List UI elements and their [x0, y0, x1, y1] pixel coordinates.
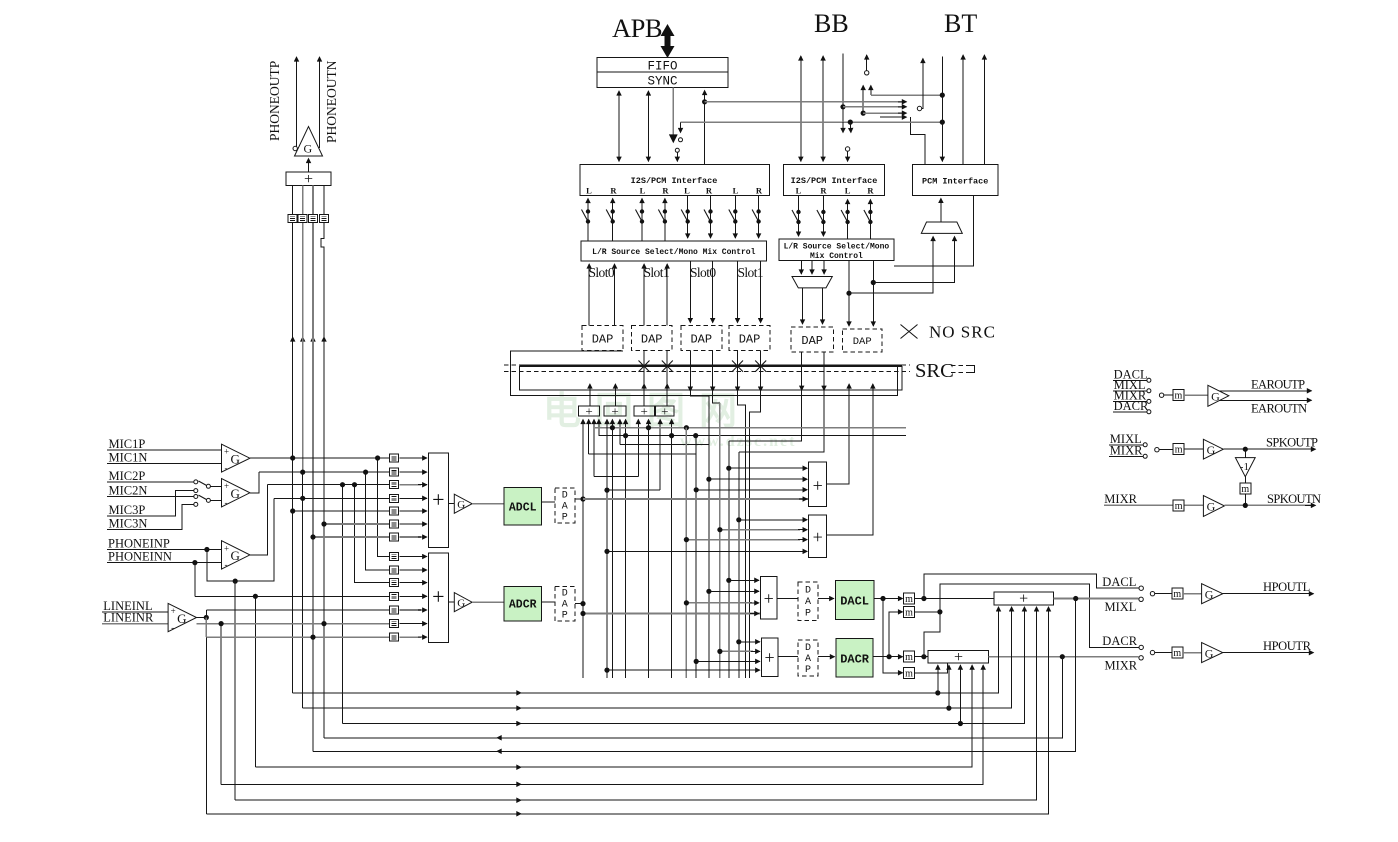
- SRC inner box thick top: [519, 364, 902, 367]
- no-src cross DAP2R: [662, 361, 673, 372]
- svg-text:ADCL: ADCL: [509, 502, 537, 515]
- feedback line 7: [221, 665, 983, 784]
- wire PHONEINP tap down: [207, 498, 274, 581]
- box DAP DACL dashed: [798, 582, 818, 621]
- svg-text:+: +: [224, 447, 229, 457]
- trunk LINEINR tap: [220, 624, 222, 785]
- rec2 input arrows: [606, 420, 608, 428]
- SRC outer loop: [510, 351, 897, 396]
- wire DACR mixer to DAP: [778, 656, 798, 658]
- svg-text:DACR: DACR: [1114, 399, 1149, 413]
- box DAP DACR dashed: [798, 640, 818, 676]
- wire DAP4 R down: [760, 261, 762, 323]
- svg-text:DAP: DAP: [690, 333, 712, 347]
- trunk wire phoneout3: [312, 223, 314, 537]
- wire LINEINL: [102, 611, 168, 613]
- switch BB record select: [866, 55, 868, 70]
- trunk T686 gray: [685, 428, 687, 678]
- svg-text:+: +: [954, 649, 963, 666]
- svg-text:MIXL: MIXL: [1105, 600, 1137, 614]
- svg-text:G: G: [231, 486, 240, 501]
- box DAP ADCR dashed: [555, 586, 575, 621]
- crossfeed DACL to m2b: [883, 599, 903, 673]
- elbow from selector to PCM box: [910, 117, 925, 164]
- svg-text:G: G: [231, 452, 240, 467]
- wire BT col4 output: [983, 55, 985, 164]
- switch I2S1 ch3: [636, 209, 645, 223]
- gray bus A: [595, 427, 906, 429]
- row r11: [195, 595, 390, 597]
- node after m2a: [915, 656, 929, 658]
- link rec2in3 to trunk 708: [620, 444, 709, 446]
- trunk T671: [671, 436, 673, 678]
- switch I2S2 ch4: [864, 210, 873, 224]
- svg-text:MIC3N: MIC3N: [109, 516, 148, 530]
- wire DAP3 R down: [712, 261, 714, 323]
- node on BB col3: [840, 104, 845, 109]
- svg-text:G: G: [1211, 390, 1220, 404]
- row r13: [197, 623, 390, 625]
- svg-text:Mix Control: Mix Control: [810, 252, 863, 261]
- thick bidirectional arrow APB-FIFO: [661, 24, 675, 58]
- svg-text:MIXR: MIXR: [1105, 659, 1138, 673]
- svg-text:-: -: [225, 498, 228, 508]
- svg-text:-: -: [171, 622, 174, 632]
- svg-text:+: +: [585, 403, 592, 418]
- svg-text:PCM Interface: PCM Interface: [922, 177, 988, 187]
- wire I2S1 ch4 up: [664, 199, 666, 241]
- summer ADC mixer L: [428, 453, 448, 547]
- wire L/R2 to DAP6 L: [848, 261, 850, 327]
- wire BT col2 input down to PCM box: [941, 57, 943, 162]
- summer + phoneout: [286, 172, 331, 186]
- wires mux to DAP5: [802, 288, 804, 324]
- svg-text:DAP: DAP: [801, 334, 823, 348]
- feedback line 2: [303, 607, 1012, 708]
- svg-text:HPOUTL: HPOUTL: [1263, 580, 1310, 594]
- summer loop mixer R: [809, 515, 827, 558]
- link trunk2 to rec4in1: [607, 489, 660, 491]
- svg-text:SPKOUTP: SPKOUTP: [1266, 436, 1318, 450]
- wire PCM box to L/R2 right: [894, 195, 974, 265]
- feedback line 6: [255, 665, 972, 767]
- switch I2S2 ch1: [792, 210, 801, 224]
- box I2S/PCM Interface (BB): [784, 164, 885, 195]
- feedback line 5 from HPOUTL out: [313, 599, 1076, 752]
- trunk T1: [582, 421, 584, 678]
- wire from bus F down to switch: [680, 122, 682, 133]
- wire DAP4L down: [737, 351, 739, 392]
- svg-text:P: P: [805, 609, 811, 620]
- volume block phoneout 1: [288, 215, 297, 223]
- wire DAP6R branch to PCM mux: [873, 236, 954, 282]
- svg-text:Slot1: Slot1: [644, 265, 670, 280]
- wire G to ADCR: [472, 601, 504, 603]
- bus y117.1: [880, 116, 907, 118]
- svg-text:PHONEINP: PHONEINP: [108, 536, 170, 550]
- riser r3-r10: [355, 485, 390, 583]
- mux PCM record trapezoid: [921, 222, 962, 233]
- svg-text:D: D: [562, 491, 568, 502]
- svg-text:+: +: [813, 527, 823, 547]
- row r14: [205, 618, 207, 638]
- step DAP4L: [738, 391, 746, 678]
- svg-text:SYNC: SYNC: [647, 75, 677, 89]
- svg-text:DACR: DACR: [1102, 634, 1137, 648]
- rec3 input arrows: [637, 420, 639, 477]
- trunk T708: [708, 396, 710, 678]
- wire EAROUTN: [1219, 399, 1312, 401]
- svg-text:R: R: [706, 186, 713, 196]
- svg-text:DAP: DAP: [853, 336, 872, 348]
- volume m DACR-R: [904, 651, 915, 663]
- op-amp G phoneout: [295, 127, 323, 157]
- gray bus y106.8: [843, 106, 903, 108]
- wire DAP4 L down: [737, 261, 739, 323]
- switch MIC2/MIC3 select contacts: [194, 480, 198, 484]
- op-amp SPKOUTP G: [1203, 439, 1223, 459]
- trunk PHONEINP tap: [234, 581, 236, 800]
- box DACR: [836, 639, 873, 678]
- svg-text:A: A: [562, 502, 568, 513]
- selector EAROUT: [1159, 393, 1163, 397]
- step DAP5L to trunk: [729, 390, 802, 441]
- selector HPOUTL: [1150, 592, 1154, 596]
- svg-text:G: G: [1207, 443, 1216, 457]
- svg-text:L/R Source Select/Mono: L/R Source Select/Mono: [784, 243, 890, 252]
- box PCM Interface: [912, 164, 998, 195]
- wire MIC3N: [107, 504, 194, 529]
- svg-text:A: A: [805, 597, 811, 608]
- svg-text:L: L: [586, 186, 592, 196]
- row r1 MIC1: [250, 457, 390, 459]
- riser r2-r9: [366, 472, 390, 570]
- wire FIFO-I2S bidirectional 2: [647, 91, 649, 161]
- switch I2S1 ch1: [582, 209, 591, 223]
- svg-text:+: +: [765, 648, 775, 668]
- volume block phoneout 2: [298, 215, 307, 223]
- volume m DACR-L: [904, 606, 915, 618]
- volume m DACL-R: [904, 667, 915, 679]
- svg-text:L/R Source Select/Mono Mix Con: L/R Source Select/Mono Mix Control: [592, 248, 755, 257]
- trunk T696: [695, 436, 697, 678]
- wire mixerR to G: [448, 601, 454, 603]
- svg-text:L: L: [845, 186, 851, 196]
- box L/R Source Select Mono Mix Control 1: [581, 241, 767, 261]
- box FIFO/SYNC: [597, 58, 728, 88]
- wire BT col3 output: [962, 55, 964, 164]
- step DAP3L to trunk: [690, 391, 709, 396]
- wire PHONEIN amp out riser to r3: [250, 485, 268, 555]
- svg-text:R: R: [610, 186, 617, 196]
- svg-text:PHONEOUTP: PHONEOUTP: [267, 61, 282, 141]
- trunk T728: [728, 441, 730, 678]
- summer ADC mixer R: [428, 553, 448, 643]
- step DAP5R to trunk: [739, 390, 824, 452]
- svg-text:HPOUTR: HPOUTR: [1263, 639, 1312, 653]
- trunk T719 gray: [719, 403, 721, 678]
- box DAP2: [631, 326, 672, 351]
- svg-text:R: R: [820, 186, 827, 196]
- svg-text:Slot0: Slot0: [589, 265, 615, 280]
- svg-text:EAROUTN: EAROUTN: [1251, 401, 1307, 415]
- svg-text:MIC1P: MIC1P: [109, 437, 146, 451]
- volume block phoneout 4: [320, 215, 329, 223]
- svg-text:G: G: [457, 499, 465, 511]
- wire DACL out to m: [874, 598, 903, 600]
- op-amp PHONEIN: [222, 541, 250, 569]
- selector switch BT out: [917, 106, 921, 110]
- row r12: [206, 609, 389, 611]
- svg-text:+: +: [432, 584, 444, 609]
- svg-text:SRC: SRC: [915, 360, 954, 382]
- svg-text:FIFO: FIFO: [647, 60, 677, 74]
- svg-text:L: L: [733, 186, 739, 196]
- svg-text:-: -: [225, 463, 228, 473]
- summer box rec4: [656, 406, 674, 416]
- trunk wire from phoneout1 down to MIC1 row: [292, 223, 294, 693]
- wire DAP6L branch to PCM mux: [849, 236, 933, 293]
- op-amp HPOUTR G: [1202, 643, 1223, 663]
- box DAP6: [842, 329, 882, 352]
- wire MIXR to G: [1104, 504, 1203, 506]
- wire I2S2 ch2 down: [822, 195, 824, 236]
- summer HPOUTL mixer: [994, 592, 1053, 605]
- row r7: [313, 536, 389, 538]
- wire DAP to DACL: [818, 598, 834, 600]
- wire PHONEOUTN output: [319, 57, 321, 148]
- arrows into ADC mixer L: [399, 457, 426, 459]
- trunk T612 gray: [611, 428, 613, 678]
- node on switch leg: [861, 111, 866, 116]
- row r2 MIC2: [259, 471, 389, 473]
- wire ADCL to DAP: [542, 501, 555, 503]
- wire MIC2P: [107, 481, 194, 483]
- wire I2S1 ch2 up: [612, 199, 614, 241]
- summer box rec3: [634, 406, 655, 416]
- row r4: [274, 497, 389, 499]
- riser r1-r8: [378, 458, 390, 557]
- wire PCM mux to PCM box: [940, 198, 942, 222]
- svg-text:I2S/PCM Interface: I2S/PCM Interface: [631, 176, 718, 186]
- wire LINEINR: [102, 623, 168, 625]
- op-amp ADC G L: [454, 494, 472, 513]
- svg-text:+: +: [171, 606, 176, 616]
- svg-text:+: +: [641, 403, 648, 418]
- svg-text:G: G: [1207, 500, 1216, 514]
- svg-text:P: P: [805, 665, 811, 676]
- wires L/R2 to mux: [800, 261, 802, 275]
- svg-text:G: G: [304, 142, 313, 156]
- wire BB col3 input: [842, 54, 844, 133]
- wire I2S1 ch1 up: [587, 199, 589, 241]
- volume m DACL-L: [904, 593, 915, 605]
- wire ADCR to DAP: [542, 601, 555, 603]
- wire PHONEINP: [107, 549, 222, 551]
- svg-text:MIC2P: MIC2P: [109, 469, 146, 483]
- gray bus y101.8 FIFO to BT selector: [705, 101, 903, 103]
- trunk r3 tap: [342, 485, 344, 724]
- feedback line 9: [206, 607, 1048, 814]
- rec1 input arrows: [582, 420, 584, 428]
- svg-text:NO SRC: NO SRC: [929, 323, 996, 342]
- svg-text:R: R: [662, 186, 669, 196]
- trunk wire phoneout2: [302, 223, 304, 472]
- wire DAP2 L up: [643, 264, 645, 326]
- summer box rec2: [604, 406, 626, 416]
- box DAP1: [582, 326, 623, 351]
- node after m1a: [915, 598, 995, 600]
- wire DAP5R through SRC down: [823, 352, 825, 390]
- trunk r11 tap: [254, 596, 256, 767]
- wire phoneout in4: [323, 186, 325, 215]
- svg-text:G: G: [457, 598, 465, 610]
- svg-text:P: P: [562, 513, 568, 524]
- trunk T2: [606, 421, 608, 678]
- no-src cross DAP2L: [639, 361, 650, 372]
- svg-text:DAP: DAP: [739, 333, 761, 347]
- svg-text:MIXR: MIXR: [1104, 492, 1137, 506]
- svg-text:G: G: [1205, 587, 1214, 601]
- gray ADCR bus to DACL mixer: [583, 613, 760, 615]
- op-amp MIC2: [222, 479, 250, 507]
- svg-text:+: +: [661, 403, 668, 418]
- wire SPKOUTN: [1224, 504, 1311, 506]
- node B dot: [702, 99, 707, 104]
- svg-text:P: P: [562, 611, 568, 622]
- wire phoneout in3: [312, 186, 314, 215]
- svg-text:BB: BB: [814, 9, 849, 38]
- wire I2S1 ch7 down: [734, 195, 736, 238]
- svg-text:D: D: [805, 586, 811, 597]
- gray ADCL bus to loop mixer L: [583, 498, 809, 500]
- wire DAP2R bypass down to mixer4: [666, 351, 668, 406]
- SRC dashed line top: [504, 364, 910, 366]
- svg-text:DAP: DAP: [641, 333, 663, 347]
- wire L/R2 to DAP6 R: [872, 261, 874, 327]
- wire I2S1 ch3 up: [641, 199, 643, 241]
- svg-text:G: G: [1205, 646, 1214, 660]
- wire MIC2 amp out riser: [250, 472, 259, 493]
- wire DAP3 L down: [689, 261, 691, 323]
- wire loop mixer L riser up to SRC: [827, 390, 849, 484]
- wire FIFO up arrow from node B: [704, 91, 706, 165]
- box DACL: [836, 581, 874, 620]
- wire BB col1 bidirectional: [800, 56, 802, 161]
- svg-text:DACR: DACR: [840, 653, 870, 667]
- wire DACL select stub: [924, 574, 1139, 598]
- svg-text:I2S/PCM Interface: I2S/PCM Interface: [791, 176, 878, 186]
- wire PHONEINN tap down to r11: [194, 563, 196, 597]
- row r6: [324, 523, 389, 525]
- svg-text:A: A: [562, 600, 568, 611]
- svg-text:MIC2N: MIC2N: [109, 484, 148, 498]
- svg-text:EAROUTP: EAROUTP: [1251, 377, 1305, 391]
- box DAP ADCL dashed: [555, 488, 575, 523]
- wire SPKOUTP: [1223, 448, 1315, 450]
- svg-text:+: +: [1019, 591, 1028, 608]
- svg-text:G: G: [231, 548, 240, 563]
- svg-text:L: L: [684, 186, 690, 196]
- step DAP3R to trunk: [713, 391, 720, 403]
- svg-text:DACL: DACL: [840, 595, 869, 609]
- summer DACL mixer: [760, 576, 777, 619]
- wire m1b join: [915, 611, 940, 613]
- svg-text:Slot1: Slot1: [738, 265, 764, 280]
- volume block phoneout 3: [309, 215, 318, 223]
- gray bus F y122.1: [681, 121, 943, 123]
- wire m2b hook: [915, 663, 948, 673]
- black bus B: [599, 435, 907, 437]
- wire DAP1 L up: [588, 264, 590, 326]
- wire MIC1P: [107, 449, 222, 451]
- switch I2S2 ch3: [841, 210, 850, 224]
- wire HPOUTL out: [1223, 593, 1314, 595]
- box ADCL: [504, 488, 542, 526]
- svg-text:+: +: [611, 403, 618, 418]
- summer box rec1: [579, 406, 600, 416]
- svg-text:DAP: DAP: [592, 333, 614, 347]
- svg-text:PHONEOUTN: PHONEOUTN: [324, 60, 339, 143]
- watermark: [543, 391, 796, 450]
- gray bus y95 BT to BB switch: [871, 94, 943, 96]
- trunk T625: [625, 436, 627, 678]
- svg-text:D: D: [562, 589, 568, 600]
- box ADCR: [504, 586, 542, 621]
- switch I2S1 ch6: [704, 209, 713, 223]
- wire HPOUTR out: [1223, 652, 1314, 654]
- wire PHONEINN: [107, 562, 222, 564]
- svg-text:A: A: [805, 654, 811, 665]
- wire DAP to DACR: [818, 656, 835, 658]
- wire HPOUTL mixer out: [1053, 598, 1138, 600]
- wire DAP2L bypass down to mixer3: [643, 351, 645, 406]
- wire PHONEOUTP output: [296, 57, 298, 148]
- trunk LINEINL tap: [205, 610, 207, 814]
- inverter -1: [1244, 449, 1246, 457]
- svg-text:D: D: [805, 643, 811, 654]
- svg-text:+: +: [224, 481, 229, 491]
- wire MIC2N: [107, 496, 194, 498]
- svg-text:MIXR: MIXR: [1110, 443, 1143, 457]
- svg-text:-1: -1: [1240, 461, 1249, 473]
- switch I2S2 ch2: [817, 210, 826, 224]
- summer loop mixer L: [809, 462, 827, 506]
- trunk wire phoneout4: [321, 223, 324, 738]
- switch I2S1 ch7: [729, 209, 738, 223]
- wire FIFO down to switch (gray): [672, 88, 674, 142]
- SRC dashes right of label: [951, 365, 975, 367]
- switch FIFO playback select: [679, 138, 683, 142]
- box I2S/PCM Interface (APB): [580, 164, 770, 195]
- wire G to ADCL: [472, 503, 504, 505]
- SRC dashed line bottom: [504, 370, 910, 372]
- wire BB col2 bidirectional: [822, 56, 824, 161]
- wire DAP2 R up: [666, 264, 668, 326]
- wire HPOUTR mixer out: [989, 656, 1139, 658]
- selector SPKOUTP: [1155, 448, 1159, 452]
- summer DACR mixer: [761, 638, 778, 677]
- box L/R Source Select 2: [779, 239, 894, 260]
- svg-text:L: L: [640, 186, 646, 196]
- svg-text:MIC3P: MIC3P: [109, 503, 146, 517]
- feedback line 8: [235, 607, 1036, 800]
- wire DAP3L through SRC down: [689, 351, 691, 392]
- wire DAP1 R up: [614, 264, 616, 326]
- svg-text:BT: BT: [944, 9, 977, 38]
- switch I2S1 ch2: [606, 209, 615, 223]
- link rec1in3 to rec3in1: [594, 476, 638, 478]
